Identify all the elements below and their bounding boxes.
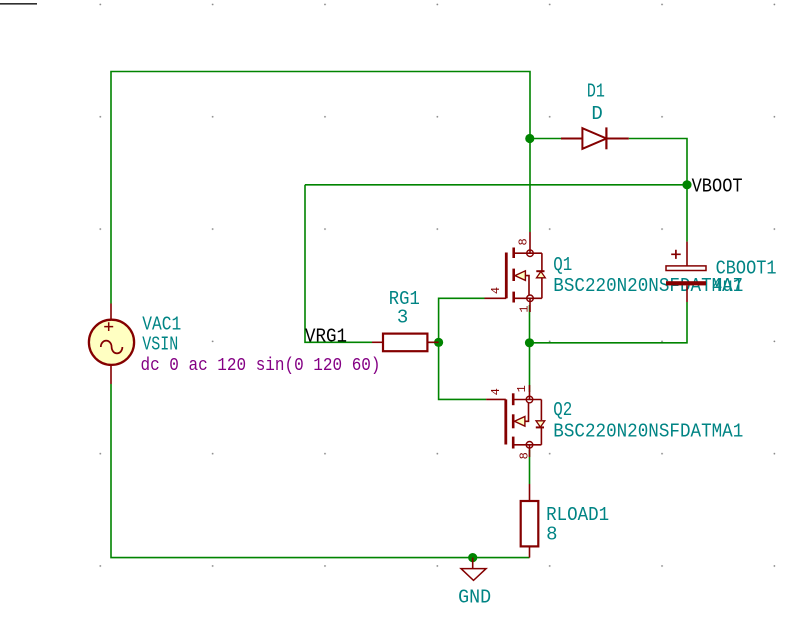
channel bar middle [512,269,515,281]
resistor RLOAD1 [521,484,539,558]
drain bar to pin [513,444,541,446]
wire diode anode branch [530,138,561,140]
svg-text:D1: D1 [587,81,605,103]
svg-text:D: D [591,103,602,125]
source arrow [515,271,525,281]
svg-text:8: 8 [516,238,530,245]
svg-text:4u7: 4u7 [712,275,743,297]
svg-text:VBOOT: VBOOT [692,175,743,197]
svg-text:1: 1 [518,305,532,312]
channel bar middle [512,414,515,428]
wire VBOOT horizontal [305,184,687,186]
voltage source VAC1 [89,304,134,385]
gate bar [504,399,507,444]
channel bar top [512,393,515,405]
gate pin 4 [486,398,506,400]
svg-text:8: 8 [518,452,532,459]
wire Q1 source to Q2 drain trunk [529,305,531,392]
gate bar [505,253,508,299]
channel bar top [512,248,515,259]
polarity plus [671,250,681,259]
svg-text:BSC220N20NSFDATMA1: BSC220N20NSFDATMA1 [553,420,743,442]
pin 8 drain pin [529,232,531,253]
junction at VBOOT [682,180,691,189]
body diode triangle [536,421,545,427]
source arrow [515,417,525,427]
top plate [666,266,706,271]
channel bar bottom [512,292,515,303]
junction at GND [468,553,477,562]
resistor RG1 [372,334,439,352]
body diode cathode bar [536,270,544,272]
svg-text:8: 8 [546,523,557,545]
channel bar bottom [512,437,515,449]
sheet border fragment [0,3,37,5]
wire RG1 out to junction [427,341,438,343]
gate pin 4 [485,297,507,299]
capacitor CBOOT1 [666,242,706,302]
wire diode cathode to VBOOT vertical [629,139,687,242]
svg-text:4: 4 [489,388,503,395]
junction at diode anode [525,134,534,143]
transistor Q2 [486,385,545,457]
svg-text:VRG1: VRG1 [305,325,347,347]
wire from VAC1 top to top-left corner and across to right trunk [111,72,530,304]
svg-text:Q2: Q2 [553,399,572,421]
svg-text:dc 0 ac 120 sin(0 120 60): dc 0 ac 120 sin(0 120 60) [141,356,381,376]
svg-text:4: 4 [489,287,503,294]
wire junction to Q1 gate [439,298,485,342]
ground symbol [461,558,486,581]
svg-text:GND: GND [458,586,491,608]
body diode branch [541,253,543,271]
pin 1 source pin [529,385,531,400]
wire Q2 drain to RLOAD1 top [529,450,531,484]
svg-text:3: 3 [397,306,408,328]
body diode cathode bar [536,426,544,428]
wire junction to Q2 gate [439,342,487,399]
junction at trunk / CBOOT return [525,338,534,347]
svg-text:1: 1 [515,385,529,392]
body diode triangle [537,272,546,278]
source bar to pin [514,297,542,299]
wire VRG1 branch down and to RG1 [305,185,372,342]
transistor Q1 [485,232,546,312]
bottom plate [666,281,706,285]
wire VAC1 bottom to bottom rail and to RLOAD1 bottom [111,384,530,558]
body diode branch [540,400,542,421]
svg-text:VSIN: VSIN [142,333,178,355]
svg-text:VAC1: VAC1 [142,314,181,336]
diode D1 [561,127,629,149]
wire CBOOT1 bottom return to trunk junction [530,302,688,343]
junction at RG1 output [434,338,443,347]
svg-text:Q1: Q1 [553,254,572,276]
